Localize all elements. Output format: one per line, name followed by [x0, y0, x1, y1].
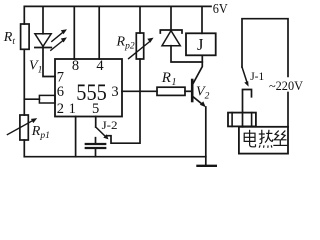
potentiometer Rp1: [20, 115, 28, 140]
svg-text:J-1: J-1: [250, 69, 264, 83]
fuse inner bar right: [251, 113, 253, 127]
svg-text:4: 4: [96, 58, 104, 74]
resistor Rt: [21, 24, 30, 49]
diode VD cathode bar: [160, 30, 182, 33]
wire V2 emitter to ground: [205, 107, 207, 166]
wire V1 column drop: [42, 6, 44, 33]
wire Rp1 bottom to ground rail: [23, 140, 25, 157]
wire diode anode to V2 collector node: [171, 46, 202, 62]
LED V1 cathode bar: [35, 47, 51, 49]
svg-text:8: 8: [72, 58, 79, 74]
switch J-2 blade: [96, 127, 106, 137]
wire pin 1 to ground rail: [75, 117, 77, 157]
svg-text:6V: 6V: [213, 2, 228, 17]
potentiometer Rp2 arrow: [129, 41, 150, 58]
wire relay J drop: [201, 6, 203, 33]
wire pin4 drop: [98, 6, 100, 59]
wire pin8 drop: [73, 6, 75, 59]
svg-text:6: 6: [57, 84, 64, 100]
wire ground rail: [24, 156, 206, 158]
char 丝: [273, 131, 287, 146]
svg-text:2: 2: [57, 101, 64, 117]
resistor R1: [157, 87, 185, 95]
relay coil J box: [186, 33, 216, 55]
wire branch to pins 6-2: [24, 98, 39, 100]
heater box 电热丝: [239, 127, 288, 154]
capacitor C plates: [86, 143, 105, 145]
svg-text:J-2: J-2: [102, 118, 118, 132]
char 热: [259, 130, 273, 148]
fuse inner bar left: [231, 113, 233, 127]
svg-text:3: 3: [111, 84, 118, 100]
svg-text:J: J: [197, 35, 204, 54]
ground symbol: [198, 165, 216, 167]
LED V1 emission arrow upper: [52, 32, 64, 42]
svg-text:1: 1: [69, 101, 76, 117]
svg-text:~220V: ~220V: [269, 78, 304, 93]
wire Rp2 bottom to J-2 contact: [107, 59, 140, 143]
potentiometer Rp1 arrow: [7, 120, 34, 135]
IC U1 555 body: [55, 59, 122, 117]
transistor V2 emitter: [193, 97, 203, 105]
transistor V2 base bar: [191, 80, 194, 101]
capacitor C top lead: [95, 138, 97, 144]
wire top supply rail: [24, 6, 211, 24]
wire Rt bottom to Rp1: [23, 49, 25, 115]
switch J-1 blade: [242, 67, 247, 82]
fuse/plug rectangle: [228, 113, 256, 127]
diode VD triangle: [162, 31, 180, 46]
switch J-1 fixed contact: [243, 90, 252, 113]
potentiometer Rp2: [136, 33, 143, 59]
wire diode drop: [170, 6, 172, 30]
transistor V2 collector: [193, 55, 203, 84]
wire V1 cathode to pin 7: [43, 48, 55, 77]
wire pin 5 drop: [95, 117, 97, 128]
wire Rp2 drop: [139, 6, 141, 33]
svg-text:555: 555: [76, 80, 107, 105]
LED V1 emission arrow lower: [51, 40, 64, 50]
wire pin 3 to R1: [122, 90, 157, 92]
wire R1 to V2 base: [185, 90, 192, 92]
right loop top wire: [242, 19, 288, 77]
label 电热丝 (drawn strokes): [244, 130, 287, 148]
LED V1 triangle: [35, 34, 51, 47]
wire right loop lower segment: [287, 93, 289, 127]
connector pins 6-2 tie box: [39, 95, 55, 103]
char 电: [244, 130, 255, 147]
capacitor C bottom lead: [95, 149, 97, 157]
wire through fuse to heater box: [242, 113, 244, 127]
